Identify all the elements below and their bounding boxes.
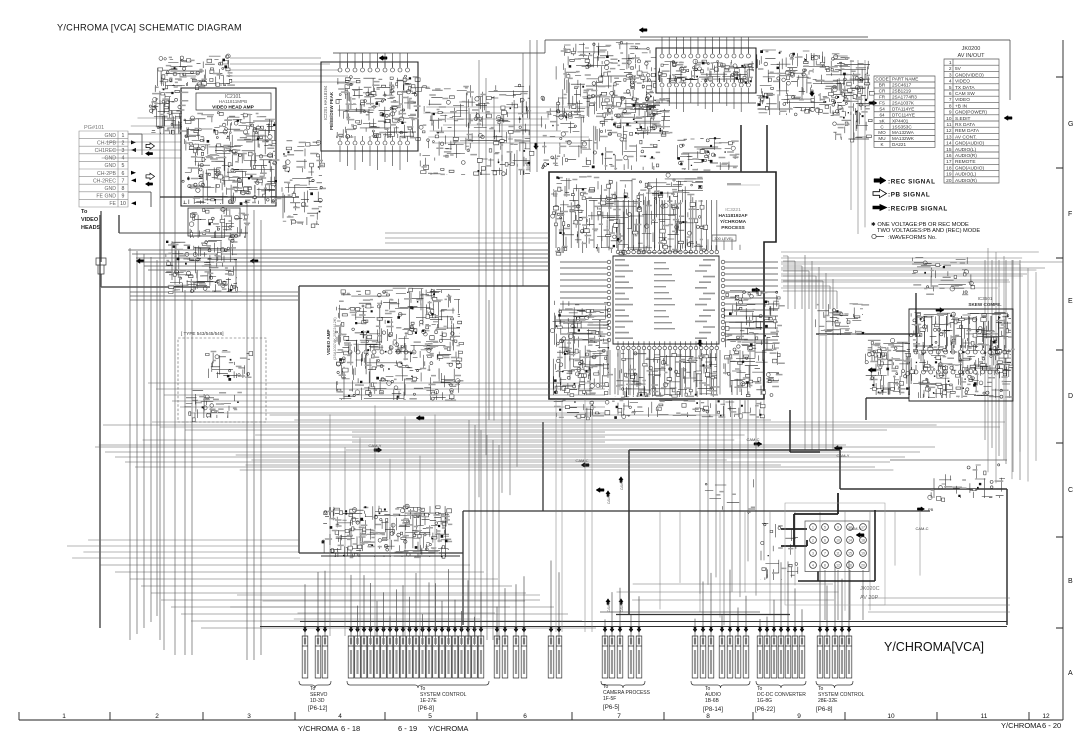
svg-text:4: 4 [122, 156, 125, 162]
svg-text:7: 7 [617, 713, 621, 720]
svg-text:(2SA1037AK,2SC2412K): (2SA1037AK,2SC2412K) [333, 317, 337, 360]
svg-text:FE GND: FE GND [96, 194, 116, 200]
svg-text:6: 6 [523, 713, 527, 720]
svg-text:1E-27E: 1E-27E [420, 698, 437, 704]
svg-text:5: 5 [122, 163, 125, 169]
svg-text:FE: FE [109, 201, 116, 207]
svg-text:64: 64 [879, 112, 885, 117]
svg-text:[P6-8]: [P6-8] [418, 706, 434, 712]
svg-text:2: 2 [812, 539, 814, 543]
svg-text:CH-1PB: CH-1PB [97, 140, 117, 146]
svg-text:PG#101: PG#101 [84, 125, 104, 131]
svg-text:9: 9 [797, 713, 801, 720]
svg-text:MA132WA: MA132WA [892, 130, 915, 135]
svg-text::WAVEFORMS No.: :WAVEFORMS No. [888, 235, 937, 241]
svg-text:1SS353C: 1SS353C [892, 124, 912, 129]
svg-text:4: 4 [812, 564, 814, 568]
svg-text:VIDEO HEAD AMP: VIDEO HEAD AMP [212, 105, 254, 111]
svg-text:2SB1219: 2SB1219 [892, 89, 911, 94]
svg-text:1: 1 [122, 133, 125, 139]
svg-text:To: To [81, 209, 88, 215]
svg-text:[P6-8]: [P6-8] [816, 706, 833, 713]
svg-text:PB/EE/DEW PEAK: PB/EE/DEW PEAK [329, 91, 334, 130]
svg-text:B: B [1068, 578, 1073, 585]
svg-text:GND: GND [104, 133, 116, 139]
svg-text::PB SIGNAL: :PB SIGNAL [888, 192, 930, 199]
svg-text:A: A [1068, 670, 1073, 677]
svg-text:2SA1037K: 2SA1037K [892, 101, 915, 106]
svg-text:1: 1 [62, 713, 66, 720]
svg-text:DA221: DA221 [892, 142, 906, 147]
svg-text:XP4401: XP4401 [892, 118, 909, 123]
svg-text:1F-5F: 1F-5F [603, 696, 616, 702]
svg-text:6 - 19: 6 - 19 [398, 724, 417, 733]
svg-text:HEADS: HEADS [81, 225, 101, 231]
svg-text:HA118192AF: HA118192AF [718, 213, 747, 219]
svg-text:CAM C: CAM C [620, 479, 624, 490]
svg-text:[ TYPE 543/545/546]: [ TYPE 543/545/546] [181, 331, 224, 336]
svg-text:19: 19 [861, 552, 865, 556]
svg-text:Y/CHROMA: Y/CHROMA [720, 219, 747, 225]
svg-text:Y/CHROMA [VCA] SCHEMATIC DIAGR: Y/CHROMA [VCA] SCHEMATIC DIAGRAM [57, 23, 242, 33]
svg-text:18: 18 [861, 539, 865, 543]
svg-text:17: 17 [861, 526, 865, 530]
svg-text:1B-6B: 1B-6B [705, 698, 720, 704]
svg-text:7: 7 [824, 552, 826, 556]
svg-text:VIDEO: VIDEO [81, 217, 99, 223]
svg-text:3: 3 [812, 552, 814, 556]
svg-text:CAM-C: CAM-C [915, 526, 928, 531]
svg-text:15: 15 [848, 552, 852, 556]
svg-text:3: 3 [247, 713, 251, 720]
svg-text:8: 8 [122, 186, 125, 192]
svg-text:Y/CHROMA: Y/CHROMA [298, 724, 338, 733]
svg-text:6: 6 [122, 171, 125, 177]
svg-text:5: 5 [824, 526, 826, 530]
svg-text:sK: sK [879, 118, 885, 123]
svg-text:E: E [1068, 298, 1073, 305]
svg-text:CAM C: CAM C [620, 601, 624, 612]
svg-text:2SC4617: 2SC4617 [892, 83, 912, 88]
svg-text:BR: BR [879, 83, 886, 88]
svg-text:CAM-C: CAM-C [746, 437, 759, 442]
svg-text:9: 9 [122, 194, 125, 200]
svg-text:DTA114YE: DTA114YE [892, 107, 914, 112]
svg-text:FS: FS [879, 101, 885, 106]
svg-text:[P6-5]: [P6-5] [603, 704, 620, 711]
svg-text:[P6-22]: [P6-22] [755, 706, 775, 713]
svg-text:Y/CHROMA[VCA]: Y/CHROMA[VCA] [884, 640, 984, 654]
svg-text:3: 3 [122, 148, 125, 154]
svg-text:1: 1 [812, 526, 814, 530]
svg-text:CAM Y: CAM Y [607, 601, 611, 612]
svg-text:1G-8G: 1G-8G [757, 698, 772, 704]
svg-text:8: 8 [824, 564, 826, 568]
svg-text:5: 5 [428, 713, 432, 720]
svg-text:6: 6 [824, 539, 826, 543]
svg-text:GND: GND [104, 156, 116, 162]
svg-text:PART NAME: PART NAME [892, 77, 918, 82]
svg-text:G: G [1068, 121, 1073, 128]
svg-text:6 - 18: 6 - 18 [341, 724, 360, 733]
svg-text:9: 9 [837, 526, 839, 530]
svg-text:IC2201 HA118194: IC2201 HA118194 [323, 85, 328, 120]
svg-text:8: 8 [706, 713, 710, 720]
svg-text:[P6-12]: [P6-12] [308, 706, 328, 712]
svg-text:F: F [1068, 211, 1072, 218]
svg-text:✱ ONE VOLTAGE:PB OR REC MODE: ✱ ONE VOLTAGE:PB OR REC MODE [871, 221, 969, 228]
svg-text:MO: MO [878, 130, 886, 135]
svg-text:20: 20 [861, 564, 865, 568]
svg-text:2: 2 [155, 713, 159, 720]
svg-text:[P8-14]: [P8-14] [703, 706, 723, 713]
svg-text:GND: GND [104, 186, 116, 192]
svg-text:10: 10 [887, 713, 895, 720]
svg-text:MU: MU [878, 136, 885, 141]
svg-text:14: 14 [848, 539, 852, 543]
svg-text:PROCESS: PROCESS [721, 225, 745, 231]
svg-text:GND: GND [104, 163, 116, 169]
svg-text:12: 12 [836, 564, 840, 568]
svg-text:D: D [1068, 393, 1073, 400]
svg-text:CH-2PB: CH-2PB [97, 171, 117, 177]
svg-text:CH1REC: CH1REC [95, 148, 117, 154]
svg-text:CODE: CODE [875, 77, 888, 82]
svg-text:IC3221: IC3221 [725, 207, 741, 213]
svg-text:7: 7 [122, 178, 125, 184]
svg-text:S4: S4 [879, 107, 885, 112]
svg-text:TWO VOLTAGES:PB AND (REC) MODE: TWO VOLTAGES:PB AND (REC) MODE [877, 228, 980, 234]
svg-text:VIDEO AMP: VIDEO AMP [326, 329, 331, 355]
svg-text:6 - 20: 6 - 20 [1042, 721, 1061, 730]
svg-text:AV IN/OUT: AV IN/OUT [957, 53, 985, 59]
svg-text:CAM Y: CAM Y [607, 493, 611, 504]
svg-text:4: 4 [338, 713, 342, 720]
svg-text:Y/CHROMA: Y/CHROMA [1001, 721, 1041, 730]
svg-text:2: 2 [122, 140, 125, 146]
svg-text::REC SIGNAL: :REC SIGNAL [888, 179, 936, 186]
svg-text:DTC114YE: DTC114YE [892, 112, 915, 117]
svg-text:FR: FR [879, 95, 886, 100]
svg-text::REC/PB SIGNAL: :REC/PB SIGNAL [888, 206, 948, 213]
svg-text:2SA1774R3: 2SA1774R3 [892, 95, 917, 100]
svg-text:10: 10 [120, 201, 126, 207]
svg-text:JK0200: JK0200 [962, 46, 981, 52]
svg-text:12: 12 [1042, 713, 1050, 720]
svg-text:28E-32E: 28E-32E [818, 698, 838, 704]
svg-text:CR: CR [879, 89, 886, 94]
svg-text:1D-3D: 1D-3D [310, 698, 325, 704]
svg-text:MA132WK: MA132WK [892, 136, 915, 141]
svg-text:Y/CHROMA: Y/CHROMA [428, 724, 468, 733]
svg-text:C: C [1068, 487, 1073, 494]
svg-text:10: 10 [836, 539, 840, 543]
svg-text:HA11811MPB: HA11811MPB [219, 99, 247, 104]
svg-text:CH-2REC: CH-2REC [93, 178, 116, 184]
svg-text:11: 11 [981, 713, 988, 720]
svg-text:11: 11 [836, 552, 840, 556]
